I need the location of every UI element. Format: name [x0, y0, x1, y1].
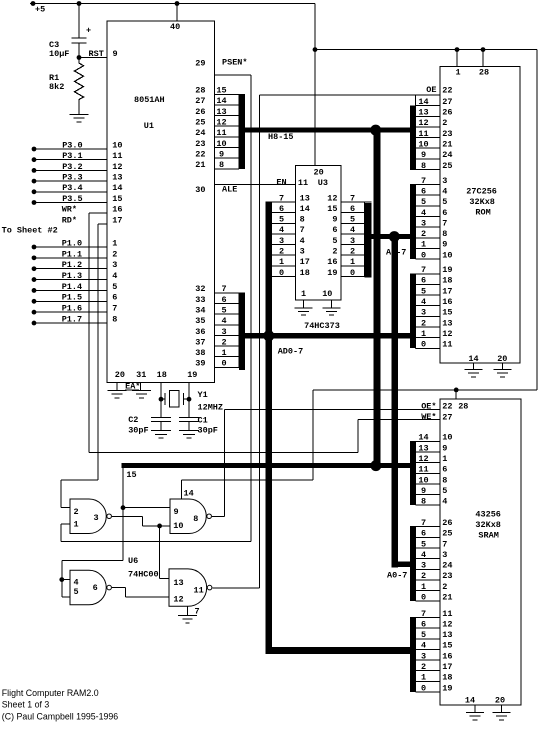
- svg-text:OE*: OE*: [421, 402, 436, 412]
- svg-text:12: 12: [327, 193, 337, 203]
- svg-text:13: 13: [173, 578, 183, 588]
- svg-text:5: 5: [421, 539, 426, 549]
- svg-text:16: 16: [442, 651, 452, 661]
- svg-text:8k2: 8k2: [49, 82, 64, 92]
- svg-text:0: 0: [350, 268, 355, 278]
- svg-text:8: 8: [442, 229, 447, 239]
- svg-text:27: 27: [195, 96, 205, 106]
- svg-text:21: 21: [195, 160, 205, 170]
- svg-text:18: 18: [157, 370, 167, 380]
- svg-text:+: +: [86, 26, 91, 36]
- svg-text:AD0-7: AD0-7: [278, 347, 304, 357]
- svg-text:2: 2: [112, 249, 117, 259]
- svg-text:18: 18: [442, 276, 452, 286]
- svg-text:2: 2: [421, 318, 426, 328]
- svg-text:22: 22: [442, 85, 452, 95]
- svg-text:6: 6: [421, 619, 426, 629]
- svg-text:29: 29: [195, 59, 205, 69]
- svg-text:4: 4: [421, 641, 426, 651]
- svg-text:3: 3: [221, 327, 226, 337]
- svg-text:13: 13: [418, 108, 428, 118]
- svg-text:43256: 43256: [475, 509, 501, 519]
- svg-text:5: 5: [279, 215, 284, 225]
- svg-text:6: 6: [350, 204, 355, 214]
- svg-text:26: 26: [195, 107, 205, 117]
- svg-text:74HC00: 74HC00: [128, 569, 159, 579]
- svg-text:13: 13: [216, 107, 226, 117]
- svg-text:1: 1: [74, 519, 79, 529]
- svg-text:28: 28: [458, 402, 468, 412]
- svg-text:8: 8: [112, 314, 117, 324]
- svg-text:6: 6: [112, 293, 117, 303]
- svg-text:9: 9: [421, 486, 426, 496]
- svg-text:9: 9: [174, 507, 179, 517]
- svg-text:0: 0: [421, 250, 426, 260]
- svg-text:RD*: RD*: [62, 215, 77, 225]
- svg-text:3: 3: [442, 176, 447, 186]
- svg-text:6: 6: [279, 204, 284, 214]
- svg-text:2: 2: [350, 247, 355, 257]
- svg-text:4: 4: [442, 497, 447, 507]
- svg-text:2: 2: [279, 247, 284, 257]
- svg-text:14: 14: [468, 354, 478, 364]
- svg-text:25: 25: [442, 529, 452, 539]
- svg-text:12MHZ: 12MHZ: [198, 403, 224, 413]
- svg-text:24: 24: [195, 128, 205, 138]
- svg-text:C1: C1: [198, 415, 208, 425]
- svg-text:7: 7: [421, 176, 426, 186]
- svg-text:10: 10: [418, 475, 428, 485]
- svg-text:74HC373: 74HC373: [304, 321, 340, 331]
- svg-text:P3.2: P3.2: [62, 162, 82, 172]
- svg-text:3: 3: [112, 260, 117, 270]
- svg-text:12: 12: [216, 118, 226, 128]
- svg-text:38: 38: [195, 348, 205, 358]
- svg-text:11: 11: [418, 129, 428, 139]
- svg-text:SRAM: SRAM: [478, 531, 498, 541]
- svg-text:P1.7: P1.7: [62, 314, 82, 324]
- svg-text:21: 21: [442, 592, 452, 602]
- svg-text:2: 2: [442, 582, 447, 592]
- svg-text:P1.5: P1.5: [62, 293, 82, 303]
- svg-text:10: 10: [442, 250, 452, 260]
- svg-text:P1.0: P1.0: [62, 238, 82, 248]
- svg-text:P3.0: P3.0: [62, 140, 82, 150]
- svg-text:A0-7: A0-7: [387, 571, 407, 581]
- svg-text:7: 7: [421, 265, 426, 275]
- svg-text:P1.4: P1.4: [62, 282, 82, 292]
- svg-text:10: 10: [173, 521, 183, 531]
- svg-text:10: 10: [216, 139, 226, 149]
- svg-text:0: 0: [421, 340, 426, 350]
- svg-text:10: 10: [112, 140, 122, 150]
- svg-text:1: 1: [421, 582, 426, 592]
- svg-text:4: 4: [300, 236, 305, 246]
- svg-text:P3.3: P3.3: [62, 173, 82, 183]
- svg-text:28: 28: [195, 86, 205, 96]
- svg-text:U1: U1: [144, 121, 154, 131]
- svg-text:30pF: 30pF: [128, 426, 148, 436]
- svg-text:19: 19: [187, 370, 197, 380]
- svg-text:3: 3: [421, 218, 426, 228]
- svg-text:11: 11: [194, 586, 204, 596]
- svg-text:17: 17: [112, 215, 122, 225]
- svg-text:10: 10: [418, 140, 428, 150]
- svg-text:4: 4: [279, 225, 284, 235]
- svg-text:15: 15: [126, 470, 136, 480]
- svg-text:13: 13: [418, 443, 428, 453]
- svg-text:15: 15: [327, 204, 337, 214]
- svg-text:32Kx8: 32Kx8: [469, 197, 495, 207]
- svg-text:3: 3: [300, 247, 305, 257]
- svg-text:7: 7: [442, 539, 447, 549]
- svg-text:0: 0: [421, 592, 426, 602]
- svg-text:13: 13: [112, 173, 122, 183]
- svg-text:11: 11: [112, 151, 122, 161]
- svg-text:7: 7: [112, 304, 117, 314]
- svg-text:17: 17: [300, 257, 310, 267]
- svg-text:36: 36: [195, 327, 205, 337]
- svg-text:0: 0: [279, 268, 284, 278]
- svg-text:37: 37: [195, 337, 205, 347]
- svg-text:32: 32: [195, 284, 205, 294]
- svg-text:20: 20: [314, 167, 324, 177]
- svg-text:7: 7: [279, 193, 284, 203]
- svg-text:19: 19: [327, 268, 337, 278]
- svg-text:1: 1: [301, 289, 306, 299]
- svg-text:11: 11: [298, 178, 308, 188]
- svg-text:15: 15: [442, 641, 452, 651]
- svg-text:0: 0: [221, 359, 226, 369]
- svg-text:4: 4: [421, 208, 426, 218]
- svg-text:ALE: ALE: [222, 185, 237, 195]
- svg-text:PSEN*: PSEN*: [222, 58, 248, 68]
- svg-text:18: 18: [300, 268, 310, 278]
- svg-text:6: 6: [93, 583, 98, 593]
- svg-text:7: 7: [421, 518, 426, 528]
- svg-text:40: 40: [170, 22, 180, 32]
- svg-text:30: 30: [195, 185, 205, 195]
- svg-text:8: 8: [421, 161, 426, 171]
- svg-text:6: 6: [442, 208, 447, 218]
- svg-text:9: 9: [219, 149, 224, 159]
- svg-text:5: 5: [421, 197, 426, 207]
- svg-text:OE: OE: [426, 85, 436, 95]
- svg-text:8: 8: [300, 215, 305, 225]
- svg-text:23: 23: [442, 571, 452, 581]
- svg-text:22: 22: [442, 402, 452, 412]
- svg-text:U6: U6: [128, 556, 138, 566]
- svg-text:27: 27: [442, 412, 452, 422]
- svg-text:13: 13: [442, 318, 452, 328]
- svg-text:9: 9: [442, 443, 447, 453]
- svg-text:6: 6: [421, 187, 426, 197]
- svg-text:2: 2: [221, 337, 226, 347]
- svg-text:7: 7: [350, 193, 355, 203]
- svg-text:13: 13: [442, 630, 452, 640]
- svg-text:30pF: 30pF: [198, 426, 218, 436]
- svg-text:ROM: ROM: [475, 208, 490, 218]
- svg-text:3: 3: [421, 561, 426, 571]
- svg-text:P3.5: P3.5: [62, 194, 82, 204]
- svg-text:31: 31: [136, 370, 146, 380]
- svg-text:9: 9: [332, 215, 337, 225]
- svg-text:+5: +5: [35, 5, 45, 15]
- svg-text:2: 2: [421, 229, 426, 239]
- svg-text:(C) Paul Campbell 1995-1996: (C) Paul Campbell 1995-1996: [2, 712, 118, 722]
- svg-text:4: 4: [421, 297, 426, 307]
- svg-text:4: 4: [421, 550, 426, 560]
- svg-text:23: 23: [442, 129, 452, 139]
- svg-text:39: 39: [195, 359, 205, 369]
- svg-text:U3: U3: [318, 178, 328, 188]
- svg-text:7: 7: [442, 218, 447, 228]
- svg-text:8051AH: 8051AH: [134, 95, 165, 105]
- svg-text:6: 6: [421, 529, 426, 539]
- svg-text:16: 16: [327, 257, 337, 267]
- svg-text:P1.3: P1.3: [62, 271, 82, 281]
- svg-text:19: 19: [442, 265, 452, 275]
- svg-text:27C256: 27C256: [466, 186, 497, 196]
- svg-text:12: 12: [418, 118, 428, 128]
- svg-text:16: 16: [112, 205, 122, 215]
- svg-text:14: 14: [418, 97, 428, 107]
- svg-text:Flight Computer RAM2.0: Flight Computer RAM2.0: [2, 688, 99, 698]
- svg-text:12: 12: [418, 454, 428, 464]
- svg-text:5: 5: [421, 286, 426, 296]
- svg-text:2: 2: [74, 507, 79, 517]
- svg-text:12: 12: [442, 619, 452, 629]
- svg-text:15: 15: [216, 86, 226, 96]
- svg-text:14: 14: [465, 695, 475, 705]
- svg-text:22: 22: [195, 149, 205, 159]
- svg-text:34: 34: [195, 305, 205, 315]
- svg-text:0: 0: [421, 683, 426, 693]
- svg-text:8: 8: [193, 514, 198, 524]
- svg-text:6: 6: [332, 225, 337, 235]
- svg-text:RST: RST: [89, 49, 104, 59]
- svg-text:8: 8: [421, 497, 426, 507]
- svg-text:EN: EN: [276, 177, 286, 187]
- svg-text:28: 28: [479, 68, 489, 78]
- svg-text:P3.4: P3.4: [62, 183, 82, 193]
- svg-text:1: 1: [221, 348, 226, 358]
- svg-text:7: 7: [221, 284, 226, 294]
- svg-text:3: 3: [421, 308, 426, 318]
- svg-text:12: 12: [173, 595, 183, 605]
- svg-text:9: 9: [442, 240, 447, 250]
- svg-text:2: 2: [421, 662, 426, 672]
- svg-text:P1.6: P1.6: [62, 304, 82, 314]
- svg-text:1: 1: [455, 68, 460, 78]
- svg-text:To Sheet #2: To Sheet #2: [2, 226, 58, 236]
- svg-text:3: 3: [442, 550, 447, 560]
- svg-text:25: 25: [442, 161, 452, 171]
- svg-text:13: 13: [300, 193, 310, 203]
- svg-text:1: 1: [279, 257, 284, 267]
- svg-text:21: 21: [442, 140, 452, 150]
- svg-text:24: 24: [442, 561, 452, 571]
- svg-text:11: 11: [418, 465, 428, 475]
- svg-text:35: 35: [195, 316, 205, 326]
- svg-text:6: 6: [421, 276, 426, 286]
- svg-text:15: 15: [442, 308, 452, 318]
- svg-text:16: 16: [442, 297, 452, 307]
- svg-text:Y1: Y1: [198, 390, 208, 400]
- svg-text:10: 10: [322, 289, 332, 299]
- svg-text:17: 17: [442, 286, 452, 296]
- svg-text:5: 5: [112, 282, 117, 292]
- svg-text:20: 20: [495, 695, 505, 705]
- svg-text:12: 12: [112, 162, 122, 172]
- svg-text:4: 4: [221, 316, 226, 326]
- svg-text:5: 5: [421, 630, 426, 640]
- svg-text:WR*: WR*: [62, 205, 77, 215]
- svg-text:5: 5: [74, 587, 79, 597]
- svg-text:9: 9: [421, 150, 426, 160]
- svg-text:4: 4: [350, 225, 355, 235]
- svg-text:12: 12: [442, 329, 452, 339]
- svg-text:11: 11: [442, 609, 452, 619]
- svg-text:P3.1: P3.1: [62, 151, 82, 161]
- svg-text:C2: C2: [128, 415, 138, 425]
- svg-text:32Kx8: 32Kx8: [475, 520, 501, 530]
- svg-text:2: 2: [442, 118, 447, 128]
- svg-text:7: 7: [300, 225, 305, 235]
- svg-text:18: 18: [442, 673, 452, 683]
- svg-text:Sheet 1 of 3: Sheet 1 of 3: [2, 700, 50, 710]
- svg-text:8: 8: [442, 475, 447, 485]
- svg-text:5: 5: [221, 305, 226, 315]
- svg-text:27: 27: [442, 97, 452, 107]
- svg-text:20: 20: [115, 370, 125, 380]
- svg-text:14: 14: [300, 204, 310, 214]
- svg-text:11: 11: [216, 128, 226, 138]
- svg-text:1: 1: [421, 673, 426, 683]
- svg-text:11: 11: [442, 340, 452, 350]
- svg-text:4: 4: [112, 271, 117, 281]
- svg-text:24: 24: [442, 150, 452, 160]
- svg-text:P1.2: P1.2: [62, 260, 82, 270]
- svg-text:1: 1: [442, 454, 447, 464]
- svg-text:14: 14: [216, 96, 226, 106]
- svg-text:5: 5: [332, 236, 337, 246]
- svg-text:3: 3: [421, 651, 426, 661]
- svg-text:23: 23: [195, 139, 205, 149]
- svg-text:6: 6: [442, 465, 447, 475]
- svg-text:1: 1: [350, 257, 355, 267]
- svg-text:19: 19: [442, 683, 452, 693]
- svg-text:2: 2: [421, 571, 426, 581]
- svg-text:3: 3: [94, 513, 99, 523]
- svg-text:10: 10: [442, 433, 452, 443]
- svg-text:1: 1: [421, 240, 426, 250]
- svg-text:7: 7: [421, 609, 426, 619]
- svg-text:14: 14: [184, 489, 194, 499]
- svg-text:5: 5: [442, 486, 447, 496]
- svg-text:1: 1: [421, 329, 426, 339]
- svg-text:20: 20: [497, 354, 507, 364]
- svg-text:3: 3: [350, 236, 355, 246]
- svg-text:3: 3: [279, 236, 284, 246]
- svg-text:9: 9: [113, 49, 118, 59]
- svg-text:5: 5: [350, 215, 355, 225]
- svg-text:26: 26: [442, 518, 452, 528]
- svg-text:WE*: WE*: [421, 412, 436, 422]
- svg-text:P1.1: P1.1: [62, 249, 82, 259]
- svg-text:2: 2: [332, 247, 337, 257]
- svg-text:6: 6: [221, 295, 226, 305]
- svg-text:25: 25: [195, 118, 205, 128]
- svg-text:14: 14: [112, 183, 122, 193]
- svg-text:15: 15: [112, 194, 122, 204]
- svg-text:1: 1: [112, 238, 117, 248]
- svg-text:14: 14: [418, 433, 428, 443]
- svg-text:26: 26: [442, 108, 452, 118]
- svg-text:10µF: 10µF: [49, 49, 69, 59]
- svg-text:H8-15: H8-15: [268, 132, 294, 142]
- svg-text:4: 4: [442, 187, 447, 197]
- svg-text:7: 7: [195, 607, 200, 617]
- svg-text:33: 33: [195, 295, 205, 305]
- svg-text:8: 8: [219, 160, 224, 170]
- svg-text:17: 17: [442, 662, 452, 672]
- svg-text:5: 5: [442, 197, 447, 207]
